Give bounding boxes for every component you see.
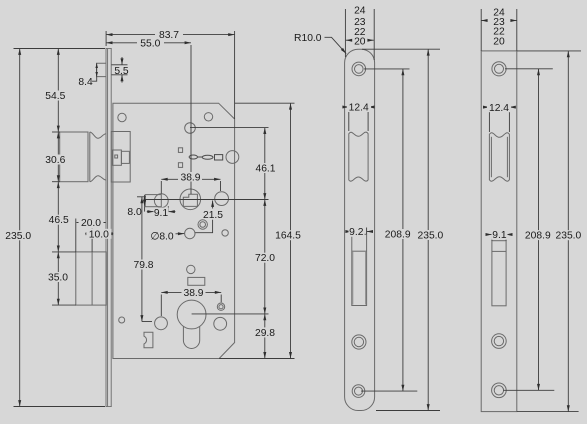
dim 164.5 [290,103,292,358]
plate top/bottom lines extended [517,50,581,52]
svg-text:55.0: 55.0 [140,39,160,50]
top tab on faceplate [97,63,107,76]
dim 83.7 [106,34,235,36]
screw hole top [352,62,366,76]
screw hole middle [492,334,507,349]
deadbolt cutout [492,241,506,306]
text labels left view [5,29,302,339]
label 208.9 (right) [525,230,552,241]
label 235.0 (right) [555,230,582,241]
deadbolt [76,252,107,305]
svg-text:46.1: 46.1 [255,164,275,175]
case body outline [113,103,235,358]
ref lines to right chain dims [190,127,269,129]
dim 208.9 refs [505,68,553,70]
svg-text:235.0: 235.0 [418,230,444,241]
small circle above cylinder [187,265,195,273]
dim 235.0 refs [362,48,440,50]
dim 235.0 left [14,48,106,50]
svg-text:54.5: 54.5 [45,91,65,102]
dim 38.9 upper [160,181,162,194]
label 9.2 [349,227,365,238]
right hub circle [215,192,229,206]
svg-text:5.5: 5.5 [114,66,129,77]
faceplate side strip [106,49,112,407]
screw hole bottom [492,383,507,398]
svg-text:12.4: 12.4 [489,103,509,114]
small circle right [222,230,228,236]
svg-text:20: 20 [493,37,505,48]
svg-text:72.0: 72.0 [255,253,275,264]
label 46.5 [47,215,70,227]
screw hole top-left [118,113,126,121]
label 38.9 upper [178,172,202,184]
label 12.4 (middle) [347,102,371,114]
svg-text:208.9: 208.9 [525,231,551,242]
svg-text:10.0: 10.0 [89,229,109,240]
svg-text:20.0: 20.0 [81,218,101,229]
latch cutout [349,132,368,181]
label 29.8 [254,327,277,339]
label 46.1 [254,163,277,175]
svg-text:79.8: 79.8 [133,260,153,271]
svg-text:46.5: 46.5 [49,215,69,226]
svg-text:9.1: 9.1 [492,230,507,241]
label 164.5 [274,230,302,242]
chain dims 54.5/30.6/46.5/35.0 [52,131,60,133]
ext lines top [105,31,107,46]
follower (spindle hub) [180,189,201,210]
svg-text:38.9: 38.9 [180,173,200,184]
svg-text:35.0: 35.0 [48,273,68,284]
label 79.8 [133,260,156,272]
ring above right screw [217,303,224,310]
dim 9.1 [147,211,154,213]
dim 8.4 tab [96,63,98,76]
label 208.9 (middle) [385,229,412,240]
svg-text:235.0: 235.0 [5,231,31,242]
bracket detail lower left [144,332,153,348]
label 20.0 [79,218,104,230]
svg-text:12.4: 12.4 [349,103,369,114]
dim 12.4 [348,108,350,131]
arrows at 20 row [346,39,352,41]
dim 38.9 lower [160,295,162,317]
linkage parts (darker) [189,155,223,160]
ring hole below follower [198,220,207,229]
svg-text:30.6: 30.6 [45,155,65,166]
svg-text:29.8: 29.8 [255,328,275,339]
faceplate outline rounded [345,49,375,410]
label 35.0 [47,272,70,284]
label 235.0 overall [5,230,31,242]
euro cylinder hole [177,300,206,348]
screw hole top [492,62,506,76]
small square holes [178,148,182,153]
label 72.0 [254,253,277,265]
dim 8.0 [144,195,146,199]
svg-text:235.0: 235.0 [556,231,582,242]
label 9.1 (right) [492,230,508,241]
dim 12.4 [488,108,490,132]
svg-text:9.1: 9.1 [154,208,169,219]
svg-text:20: 20 [354,36,366,47]
label 54.5 [44,91,67,103]
label 55.0 [137,38,164,50]
dim 29.8 [264,314,266,359]
linkage pin [189,155,197,159]
label 9.1 [154,208,169,220]
arrows at 23 row [481,20,487,22]
label 12.4 (right) [487,102,511,114]
svg-text:8.0: 8.0 [127,207,142,218]
cylinder screw left [155,317,168,330]
label 5.5 [114,66,130,77]
label 30.6 [44,155,67,167]
screw hole middle [352,335,366,349]
svg-text:24: 24 [354,6,366,17]
svg-text:8.4: 8.4 [78,77,93,88]
R10.0 leader [325,37,347,53]
ext lines width options [480,9,482,51]
dim 5.5 [112,64,128,66]
screw hole bottom [352,385,365,398]
dim 72.0 [264,200,266,314]
dia 8.0 leader [176,233,185,235]
ext lines width options [344,9,346,57]
svg-text:9.2: 9.2 [349,227,364,238]
latch tail guide rect [145,195,161,207]
small rect above cylinder [188,277,205,285]
svg-text:164.5: 164.5 [275,231,301,242]
dim 55.0 [106,42,191,44]
svg-text:∅8.0: ∅8.0 [150,232,174,243]
dia 8 hole [185,228,195,238]
svg-text:38.9: 38.9 [183,288,203,299]
left hub circle [154,194,168,208]
label 38.9 lower [182,288,206,300]
label 10.0 [86,229,111,241]
latch housing in case [111,132,130,183]
label 83.7 [155,29,183,41]
dim 20.0 / 10.0 [75,219,77,252]
dim 235.0 [567,51,569,412]
svg-text:21.5: 21.5 [203,210,223,221]
dim 208.9 refs [364,68,410,70]
small hole on faceplate lower [119,317,125,323]
svg-text:208.9: 208.9 [385,229,411,240]
deadbolt cutout [352,234,367,305]
upper pivot hole [185,123,196,134]
dim 9.2 [351,228,353,235]
dim 9.1 [491,237,493,241]
faceplate outline square [481,51,517,412]
label 235.0 (middle) [417,230,444,241]
latch cutout [489,133,509,181]
dim 46.1 [264,128,266,200]
cylinder screw right [214,317,227,330]
side hole at right edge [226,151,239,164]
hole top-right [204,113,212,121]
svg-text:R10.0: R10.0 [294,33,322,44]
dim 21.5 leader [212,201,214,209]
dim 79.8 [137,196,146,198]
latch bolt head [60,132,106,182]
